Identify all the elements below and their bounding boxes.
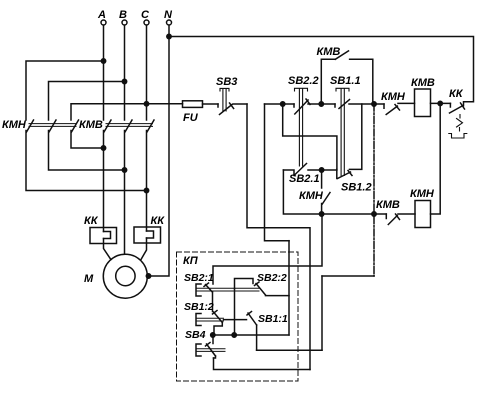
wire phase B vertical xyxy=(124,25,126,254)
node H dots 2 xyxy=(232,333,236,337)
svg-text:SB2.2: SB2.2 xyxy=(288,75,319,87)
wire A to KMN contact 1 xyxy=(26,61,104,120)
wire neutral N vertical xyxy=(149,25,170,276)
wire B to KMN contact 2 xyxy=(49,82,125,121)
svg-text:КК: КК xyxy=(84,215,99,227)
node B junction top xyxy=(122,79,126,83)
svg-text:КК: КК xyxy=(151,215,166,227)
node KMN aux bottom xyxy=(319,212,323,216)
node H dots 1 xyxy=(211,333,215,337)
terminal A xyxy=(97,9,106,25)
contact KP SB4 xyxy=(185,329,225,358)
svg-text:SB4: SB4 xyxy=(185,329,206,341)
node C junction top xyxy=(144,102,148,106)
svg-text:A: A xyxy=(97,9,106,21)
button SB3 stop xyxy=(216,76,247,115)
coil KMN xyxy=(410,188,435,228)
svg-text:SB1:1: SB1:1 xyxy=(258,313,288,325)
wire control main line xyxy=(265,102,451,105)
button SB2 stem xyxy=(295,88,308,166)
node after SB2.2 xyxy=(319,102,323,106)
contact KP SB1:2 xyxy=(184,301,224,335)
wire C to KMN contact 3 xyxy=(71,104,147,120)
wire interlock dashed from node3 xyxy=(373,104,375,276)
svg-text:FU: FU xyxy=(183,112,199,124)
wire Vq lower xyxy=(321,276,323,350)
svg-text:КМВ: КМВ xyxy=(376,199,400,211)
motor M xyxy=(84,254,147,298)
wire phase C vertical xyxy=(141,25,147,259)
node before KK xyxy=(438,101,442,105)
wire H bottom SB4 out xyxy=(214,358,311,370)
wire SB3 drop and staircase xyxy=(247,104,310,370)
wire lower row line xyxy=(283,170,415,214)
svg-text:SB2.1: SB2.1 xyxy=(289,173,320,185)
wire KMN contact1 out to C prime xyxy=(26,131,147,191)
svg-text:N: N xyxy=(164,9,173,21)
wire V2 row1 to Hdots xyxy=(234,289,236,336)
node N junction xyxy=(167,34,171,38)
wire C to FU to SB3 xyxy=(147,103,219,105)
svg-text:М: М xyxy=(84,273,94,285)
svg-text:КМВ: КМВ xyxy=(317,46,341,58)
wire phase A vertical xyxy=(104,25,111,259)
thermal relay KK heater right xyxy=(134,215,165,243)
button SB1 stem xyxy=(336,88,349,175)
svg-text:SB3: SB3 xyxy=(216,76,237,88)
contact KP SB2:1 xyxy=(184,272,259,312)
svg-text:C: C xyxy=(141,9,150,21)
wire node1 to line y136 xyxy=(283,104,337,170)
node B prime junction xyxy=(122,168,126,172)
node C prime junction xyxy=(144,188,148,192)
svg-text:КМВ: КМВ xyxy=(411,77,435,89)
contact SB1.2 xyxy=(337,104,362,179)
wire interlock horizontal y276 xyxy=(322,275,374,277)
coil KMB xyxy=(411,77,435,117)
wire H mid xyxy=(257,349,322,351)
contact KMB interlock NC xyxy=(376,199,400,225)
contact KMN auxiliary NO xyxy=(299,170,330,214)
svg-text:КМН: КМН xyxy=(299,190,324,202)
node after SB1.1 xyxy=(372,102,376,106)
terminal C xyxy=(141,9,150,25)
node motor right junction xyxy=(146,274,150,278)
svg-text:КП: КП xyxy=(183,255,199,267)
contact SB1.1 xyxy=(335,100,350,109)
contact KP SB2:2 xyxy=(235,272,287,295)
wire SB2:2 stub xyxy=(266,295,290,297)
svg-text:SB1.1: SB1.1 xyxy=(330,75,361,87)
contact KMB auxiliary bypass xyxy=(317,46,373,104)
contact KP SB1:1 xyxy=(224,312,288,351)
wire Va from staircase xyxy=(288,241,290,335)
svg-text:SB1:2: SB1:2 xyxy=(184,301,214,313)
contact KMN interlock NC xyxy=(381,91,406,115)
node interlock on lower line xyxy=(372,212,376,216)
contact SB2.2 xyxy=(294,99,310,114)
terminal N xyxy=(164,9,173,25)
contactor KMN main contacts xyxy=(2,119,79,132)
wire H dots row xyxy=(213,334,289,336)
svg-text:КМН: КМН xyxy=(410,188,435,200)
thermal relay KK heater left xyxy=(84,215,117,244)
node A prime junction xyxy=(101,146,105,150)
contact SB2.1 xyxy=(283,164,321,176)
node A junction top xyxy=(101,59,105,63)
svg-text:SB1.2: SB1.2 xyxy=(341,182,372,194)
svg-text:SB2:2: SB2:2 xyxy=(257,272,287,284)
contactor KMB main contacts xyxy=(79,119,154,132)
node before SB2.2 xyxy=(281,102,285,106)
svg-text:SB2:1: SB2:1 xyxy=(184,272,214,284)
svg-text:КМН: КМН xyxy=(381,91,406,103)
wire N rail top xyxy=(169,37,474,106)
svg-text:КМН: КМН xyxy=(2,119,27,131)
wire Vq upper to Hx xyxy=(213,214,322,284)
terminal B xyxy=(119,9,127,25)
wire KMN contact2 out to B prime xyxy=(49,131,125,171)
svg-text:КК: КК xyxy=(449,88,464,100)
box KP dashed xyxy=(177,252,299,381)
contact KK thermal NC xyxy=(449,88,467,138)
node SB2.1 out xyxy=(319,168,323,172)
svg-text:КМВ: КМВ xyxy=(79,119,103,131)
fuse FU xyxy=(183,101,203,124)
wire KMN contact3 out to A prime xyxy=(71,131,104,149)
wire y170 segment xyxy=(322,169,337,171)
svg-text:B: B xyxy=(119,9,127,21)
wire KK node down to KMN coil xyxy=(431,103,441,214)
